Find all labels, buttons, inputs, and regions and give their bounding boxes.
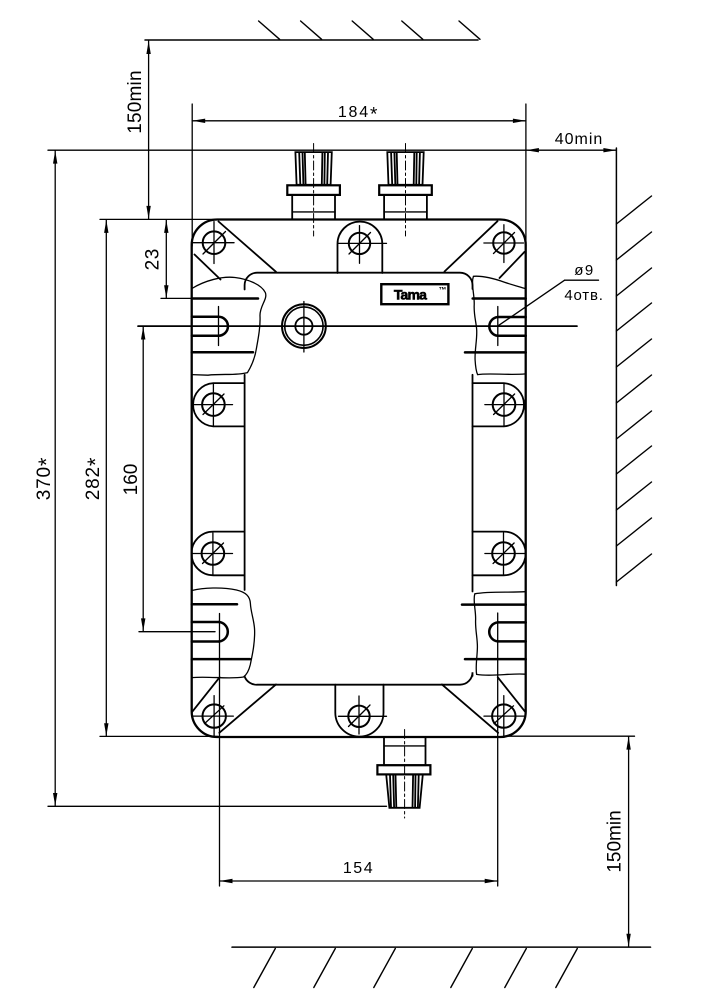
floor hatch [254,949,578,988]
lug TM hole [349,233,370,254]
side lug LL [191,532,244,576]
side lug UR [473,383,525,426]
extension line: left slot center down to 154 [219,677,221,886]
centerline: right upper slot vertical [497,307,499,346]
dimension 40min [526,149,617,151]
side lug LL hole [202,542,225,565]
lug TR chamfer [445,221,498,271]
ear UL [192,299,258,353]
floor surface line [232,946,651,948]
centerline: upper mounting holes [138,325,577,327]
break blob UR [472,276,525,374]
extension line: box bottom, to the right [508,735,635,737]
extension line: box top, to the left [100,218,218,220]
dimension 154 [220,880,498,882]
cover plate [245,273,473,685]
svg-text:23: 23 [143,248,164,270]
gland G1 (top left) [287,152,340,219]
extension for 23 bottom [161,297,192,299]
ceiling hatch [259,21,480,39]
lug TL hole [203,231,226,254]
lug BR inner diagonal [498,677,526,712]
dimension 370* [54,151,56,806]
dimension 23 [165,220,167,298]
side lug UL [193,383,245,426]
side lug UL hole [202,393,225,416]
side lug UR hole [493,393,516,416]
svg-text:ø9: ø9 [574,262,595,279]
svg-text:160: 160 [121,464,142,496]
svg-text:40min: 40min [555,131,604,148]
svg-text:Tama: Tama [394,287,427,303]
lug TR hole [493,232,514,253]
lug TM tombstone [338,222,383,273]
boss circles [282,304,326,348]
ear UR [465,299,526,353]
dimension 160 [142,327,144,632]
lug TR inner diagonal [500,252,525,278]
lug BR hole [492,704,515,727]
ear LL [192,604,250,659]
leader shelf [565,279,599,281]
lug BL chamfer [219,684,276,732]
centerline: left lower slot [219,614,221,678]
gland G3 (bottom) [377,737,430,808]
svg-text:150min: 150min [125,70,146,134]
lug TL inner diagonal [195,255,221,280]
extension line: gland-top level y=150 [48,149,526,151]
dimension 184* [192,120,526,122]
centerline: left upper slot vertical [218,307,220,346]
svg-text:154: 154 [343,860,374,877]
extension line: right slot center down to 154 [497,613,499,886]
lug BR chamfer [442,684,498,732]
extension line: box right edge extended up [525,104,527,246]
gland G2 (top right) [379,152,432,219]
side lug LR hole [492,542,515,565]
break blob LR [474,592,525,676]
extension line: box left edge extended up [191,104,193,246]
break blob UL [192,277,266,375]
extension line: box bottom, to the left [100,735,218,737]
ceiling surface line [145,39,478,41]
lug BM hole [348,706,369,727]
break blob LL [192,588,255,678]
lug TL chamfer [219,222,277,272]
dimension 150min (bottom) [628,737,630,947]
lug BL hole [203,704,226,727]
lug BM tombstone [335,685,383,737]
BOX BODY [192,220,526,738]
wall surface line (right) [615,148,617,586]
ear LR [462,605,526,660]
extension line: lower hole centerline, left [139,631,215,633]
svg-text:150min: 150min [605,810,626,872]
dimension 150min (top) [148,41,150,219]
logo plate [381,284,448,304]
extension line: gland-bottom level y=806 [48,805,387,807]
side lug LR [473,532,526,576]
junction box flange outline [192,220,526,738]
svg-text:4отв.: 4отв. [564,287,603,304]
wall hatch [616,196,651,582]
dimension 282* [105,220,107,736]
lug BL inner diagonal [192,677,220,712]
leader line for hole callout [499,280,565,325]
svg-text:™: ™ [439,286,447,295]
